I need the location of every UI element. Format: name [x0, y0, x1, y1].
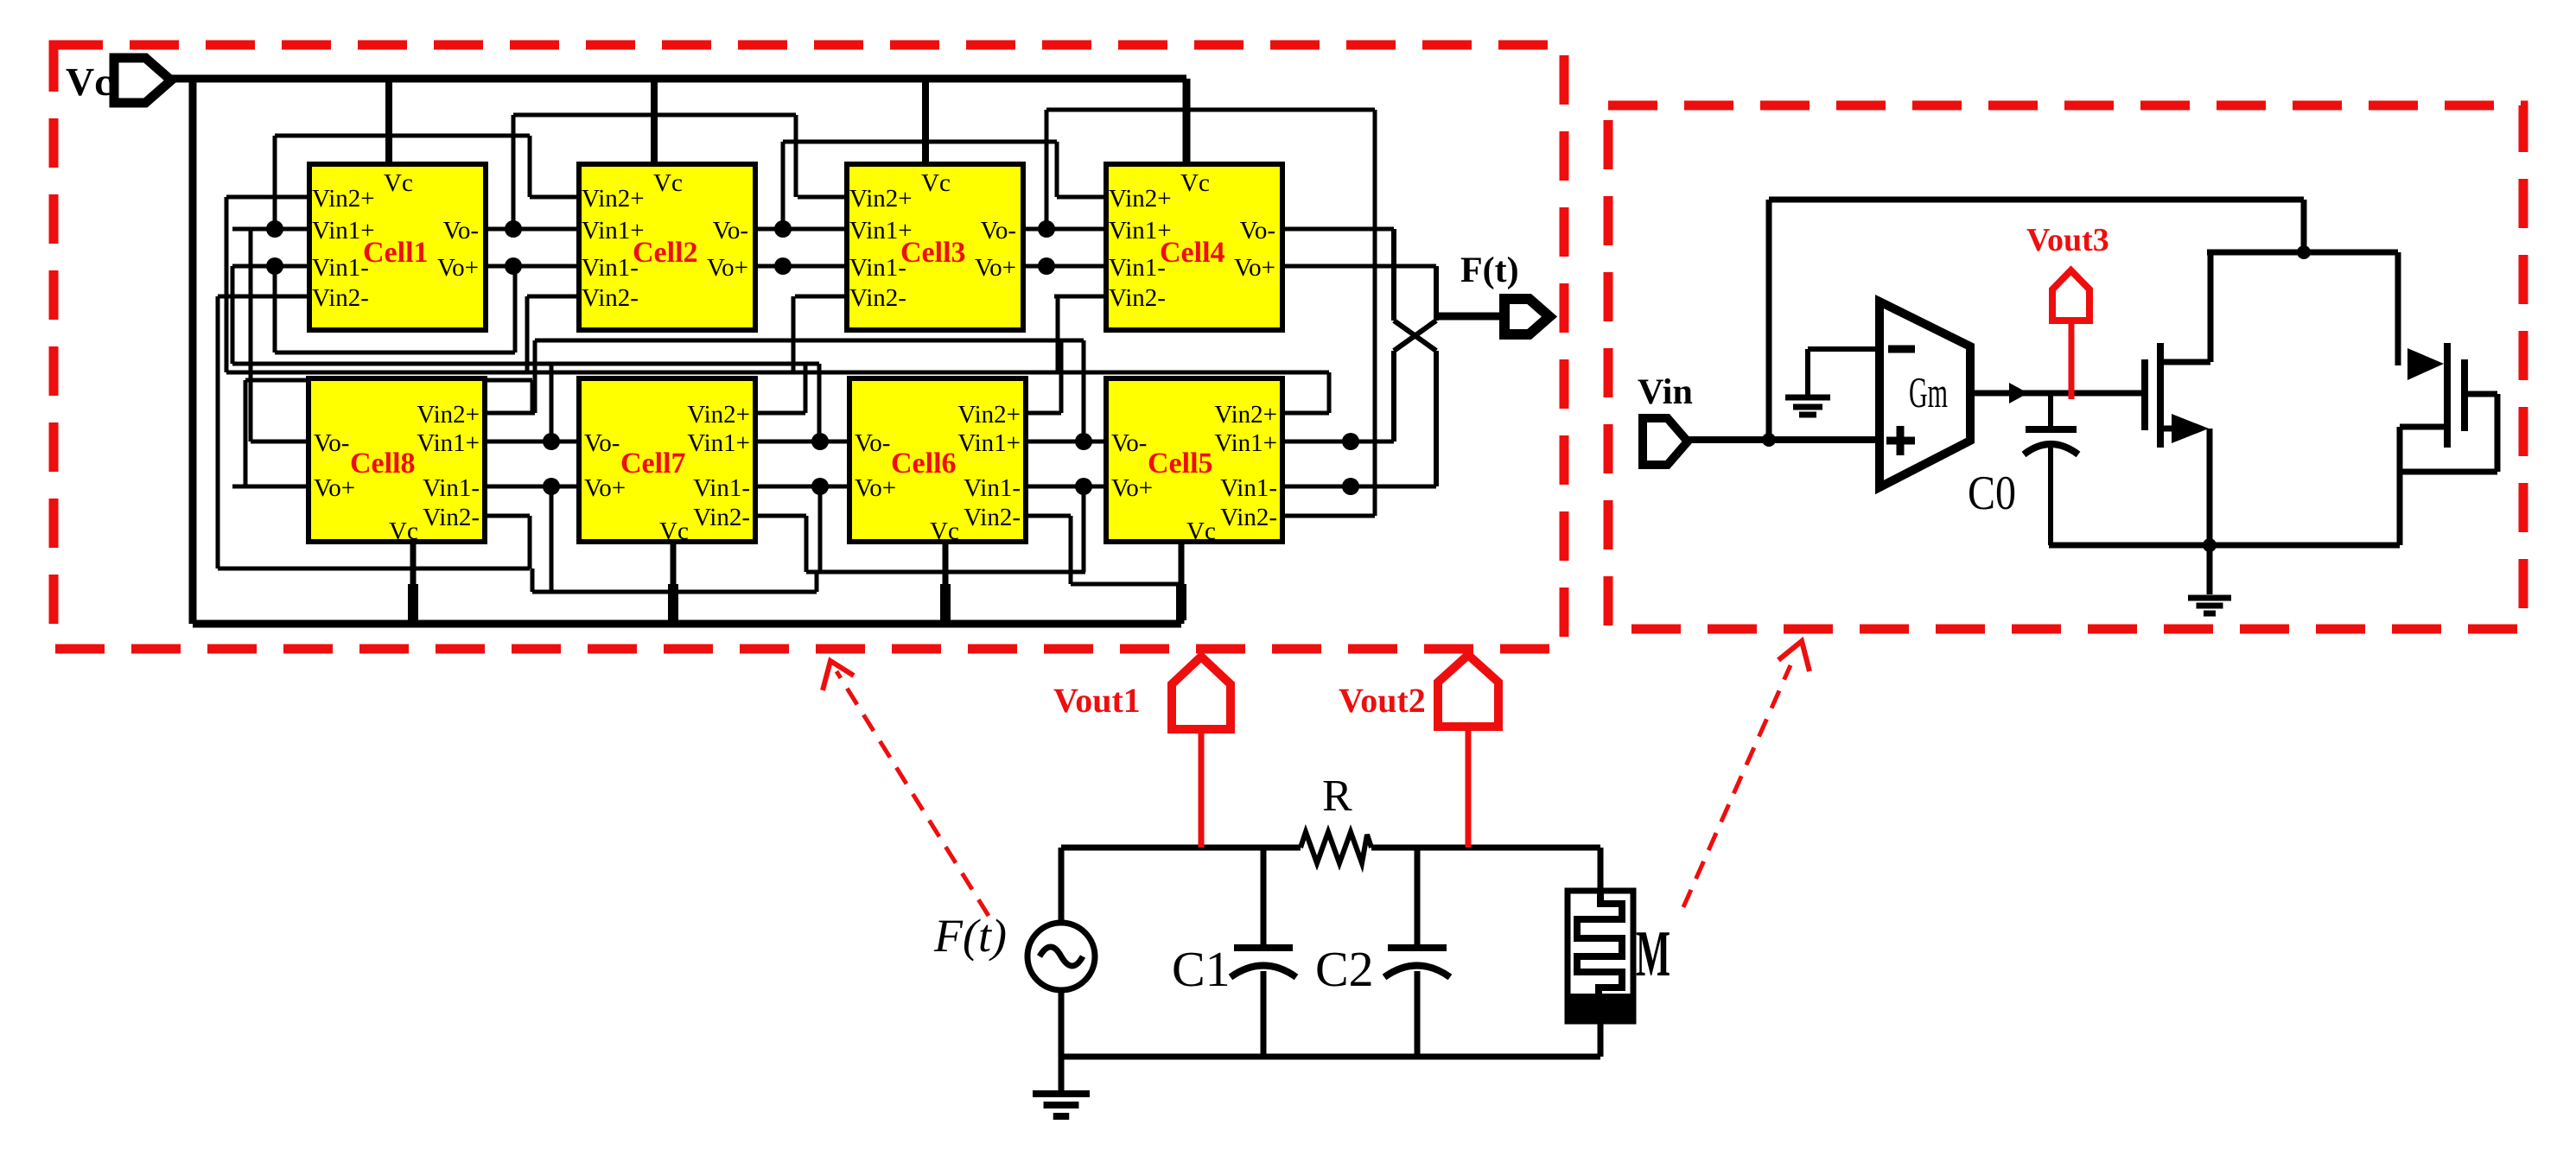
svg-text:Vo+: Vo+	[707, 254, 748, 282]
svg-text:Vin1+: Vin1+	[1214, 429, 1277, 457]
svg-text:Vo-: Vo-	[584, 429, 620, 457]
svg-text:Cell7: Cell7	[620, 448, 686, 480]
svg-text:Vc: Vc	[384, 169, 413, 197]
svg-text:Vin1-: Vin1-	[423, 474, 480, 502]
svg-text:Vin2+: Vin2+	[1214, 401, 1277, 429]
svg-text:Vc: Vc	[66, 60, 112, 104]
svg-text:Vin2-: Vin2-	[582, 284, 639, 312]
svg-text:Vc: Vc	[1180, 169, 1210, 197]
svg-text:Vin1+: Vin1+	[417, 429, 480, 457]
svg-text:Vo-: Vo-	[1240, 217, 1275, 245]
svg-text:C2: C2	[1315, 941, 1374, 997]
svg-text:Vin: Vin	[1638, 372, 1693, 412]
svg-text:Vc: Vc	[1186, 518, 1216, 545]
svg-text:C0: C0	[1968, 467, 2016, 520]
svg-text:Cell5: Cell5	[1148, 448, 1213, 480]
svg-text:Vin2+: Vin2+	[582, 185, 645, 213]
svg-text:Vo-: Vo-	[443, 217, 479, 245]
svg-text:F(t): F(t)	[933, 910, 1007, 962]
svg-text:Vin2+: Vin2+	[957, 401, 1021, 429]
svg-text:Vo-: Vo-	[981, 217, 1016, 245]
svg-text:Vin1+: Vin1+	[957, 429, 1021, 457]
svg-text:Vin2-: Vin2-	[693, 504, 750, 531]
svg-text:Vin2+: Vin2+	[417, 401, 480, 429]
svg-text:Vin2+: Vin2+	[687, 401, 750, 429]
svg-text:Vin1-: Vin1-	[312, 254, 369, 282]
svg-text:Gm: Gm	[1909, 368, 1948, 416]
svg-text:Vo-: Vo-	[314, 429, 349, 457]
svg-text:Vc: Vc	[930, 518, 959, 545]
svg-text:Vin2-: Vin2-	[964, 504, 1021, 531]
svg-text:Vo-: Vo-	[1111, 429, 1147, 457]
svg-text:Vin2-: Vin2-	[849, 284, 906, 312]
svg-text:Vo+: Vo+	[584, 474, 626, 502]
svg-text:M: M	[1636, 918, 1670, 990]
svg-text:Vin1-: Vin1-	[849, 254, 906, 282]
svg-text:Cell8: Cell8	[350, 448, 416, 480]
svg-text:Vout3: Vout3	[2026, 222, 2109, 258]
svg-text:Cell2: Cell2	[633, 237, 698, 269]
svg-text:Vin1-: Vin1-	[1220, 474, 1277, 502]
svg-text:Vo-: Vo-	[713, 217, 748, 245]
svg-text:Vin1-: Vin1-	[693, 474, 750, 502]
svg-text:R: R	[1322, 772, 1352, 821]
svg-text:Vc: Vc	[389, 518, 418, 545]
svg-text:Vin1-: Vin1-	[582, 254, 639, 282]
svg-text:Vin2+: Vin2+	[1109, 185, 1172, 213]
svg-text:Vo+: Vo+	[855, 474, 896, 502]
svg-text:C1: C1	[1172, 941, 1231, 997]
svg-text:Vo+: Vo+	[1111, 474, 1153, 502]
svg-text:Vo+: Vo+	[314, 474, 355, 502]
svg-text:F(t): F(t)	[1460, 251, 1519, 290]
svg-text:Vin2-: Vin2-	[312, 284, 369, 312]
svg-text:Cell4: Cell4	[1160, 237, 1225, 269]
svg-text:Vin2-: Vin2-	[1220, 504, 1277, 531]
svg-text:Vc: Vc	[653, 169, 683, 197]
svg-text:Cell1: Cell1	[363, 237, 429, 269]
svg-text:Vin2+: Vin2+	[312, 185, 375, 213]
svg-text:Vin1-: Vin1-	[964, 474, 1021, 502]
svg-text:Vout2: Vout2	[1339, 681, 1426, 720]
svg-text:Vo+: Vo+	[975, 254, 1016, 282]
svg-text:Vin1+: Vin1+	[687, 429, 750, 457]
svg-text:Vout1: Vout1	[1053, 681, 1141, 720]
svg-text:Vin2-: Vin2-	[423, 504, 480, 531]
svg-text:Vin2+: Vin2+	[849, 185, 913, 213]
svg-text:Vc: Vc	[659, 518, 689, 545]
svg-text:Cell3: Cell3	[900, 237, 966, 269]
svg-text:Vin2-: Vin2-	[1109, 284, 1166, 312]
svg-text:Vo-: Vo-	[855, 429, 890, 457]
svg-text:Vo+: Vo+	[1234, 254, 1275, 282]
svg-text:Vc: Vc	[921, 169, 951, 197]
svg-text:Cell6: Cell6	[891, 448, 957, 480]
svg-text:Vo+: Vo+	[437, 254, 479, 282]
svg-text:Vin1-: Vin1-	[1109, 254, 1166, 282]
